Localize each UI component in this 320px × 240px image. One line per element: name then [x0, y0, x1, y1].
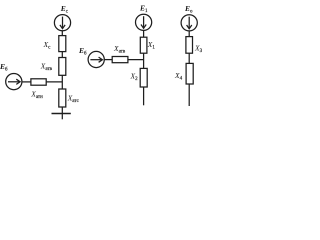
resistor Xatv (left chain): [59, 58, 66, 76]
wire: [128, 59, 144, 61]
svg-text:Eс: Eс: [60, 4, 69, 15]
svg-text:Xатв: Xатв: [40, 61, 53, 72]
resistor Xatn (horizontal): [31, 79, 46, 85]
source U3 (middle top EMF E1): [136, 14, 152, 30]
wire: [188, 31, 190, 37]
source U2 (left side EMF Eb): [6, 74, 22, 90]
resistor Xatv (middle horizontal): [112, 57, 128, 63]
wire: [143, 87, 145, 105]
svg-text:Xатв: Xатв: [113, 44, 126, 55]
source U5 (right top EMF E0): [181, 15, 197, 31]
resistor X4: [186, 63, 193, 84]
svg-text:X3: X3: [194, 43, 203, 54]
svg-text:Eб: Eб: [0, 62, 8, 73]
source U4 (middle side EMF Eb): [88, 51, 104, 67]
resistor X1: [140, 37, 147, 53]
wire: [61, 107, 63, 119]
svg-text:X2: X2: [130, 72, 139, 83]
wire: [46, 81, 62, 83]
svg-text:Xатн: Xатн: [30, 90, 43, 101]
resistor Xats: [59, 89, 66, 107]
wire: [188, 84, 190, 106]
resistor Xc: [59, 36, 66, 52]
wire: [61, 52, 63, 58]
wire: [61, 75, 63, 89]
wire: [61, 31, 63, 36]
svg-text:Xатс: Xатс: [67, 94, 80, 105]
svg-text:E1: E1: [139, 4, 148, 15]
wire: [143, 53, 145, 68]
source U1 (left top EMF Ec): [54, 15, 70, 31]
wire: [188, 53, 190, 63]
wire: [104, 59, 112, 61]
svg-text:X4: X4: [174, 71, 183, 82]
svg-text:Eб: Eб: [78, 46, 87, 57]
ground: [52, 113, 71, 115]
wire: [22, 81, 31, 83]
resistor X3: [186, 37, 193, 54]
wire: [143, 30, 145, 37]
svg-text:X1: X1: [147, 40, 156, 51]
resistor X2: [140, 68, 147, 87]
svg-text:Eо: Eо: [184, 4, 193, 15]
svg-text:Xс: Xс: [43, 40, 52, 51]
